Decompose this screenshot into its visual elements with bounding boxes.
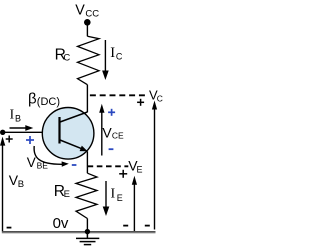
minus sign (black) at VC bottom <box>145 225 150 227</box>
minus sign (blue) below VCE <box>109 148 114 150</box>
minus sign (black) at VE bottom <box>123 225 128 227</box>
minus sign (blue) at emitter <box>72 164 77 166</box>
arrow VB (up) <box>0 137 5 231</box>
svg-text:E: E <box>117 193 123 203</box>
svg-text:B: B <box>18 179 24 190</box>
resistor RC <box>78 36 100 84</box>
node dot base-left <box>0 130 5 135</box>
arrow IB <box>10 125 34 131</box>
wire base <box>3 131 43 133</box>
svg-text:E: E <box>64 189 70 200</box>
plus sign (black) at VE <box>119 170 127 178</box>
node dot on rail <box>85 229 90 234</box>
svg-text:C: C <box>116 52 123 62</box>
svg-text:I: I <box>111 187 116 202</box>
wire RE to ground rail <box>86 219 88 232</box>
svg-text:I: I <box>10 106 15 121</box>
svg-text:B: B <box>15 114 21 124</box>
svg-text:(DC): (DC) <box>37 96 60 108</box>
label IC <box>110 45 123 61</box>
svg-text:CC: CC <box>85 9 99 20</box>
transistor Q1 base bar <box>58 117 60 144</box>
svg-text:CE: CE <box>112 131 124 141</box>
node VCC terminal dot <box>84 19 91 26</box>
label IB <box>10 106 21 123</box>
minus sign (black) at VB bottom <box>7 227 12 229</box>
dashed line emitter node to VE <box>88 165 129 167</box>
wire VCC to RC <box>86 23 88 36</box>
ground symbol <box>76 233 99 245</box>
label beta(DC) <box>28 90 60 108</box>
curved arrow VBE <box>34 146 69 167</box>
arrow VC (up) <box>152 101 157 230</box>
wire emitter to RE <box>86 151 88 173</box>
svg-text:V: V <box>102 124 112 140</box>
arrow IE <box>103 181 110 216</box>
transistor Q1 collector lead <box>60 112 87 122</box>
label VBE <box>27 155 48 171</box>
svg-text:0v: 0v <box>53 215 69 232</box>
label VCC <box>75 2 99 19</box>
svg-text:C: C <box>63 52 70 63</box>
label RE <box>54 183 70 200</box>
svg-text:C: C <box>157 93 163 103</box>
arrow IC <box>102 40 109 80</box>
label IE <box>111 187 123 203</box>
plus sign (blue) at base <box>26 136 34 144</box>
plus sign (blue) at VCE <box>108 109 115 116</box>
svg-text:E: E <box>137 164 143 174</box>
svg-text:β: β <box>28 90 37 107</box>
svg-text:V: V <box>27 155 36 170</box>
label VC <box>149 87 163 103</box>
arrow VE (up) <box>132 176 137 231</box>
svg-text:V: V <box>75 2 85 18</box>
arrow VCE (up) <box>99 104 104 156</box>
transistor Q1 body <box>42 108 94 160</box>
wire RC to collector node <box>86 85 88 113</box>
svg-text:I: I <box>110 45 115 61</box>
resistor RE <box>76 173 97 218</box>
label VE <box>128 157 142 174</box>
label VCE <box>102 124 124 140</box>
label RC <box>55 46 71 63</box>
transistor Q1 emitter lead with arrowhead <box>60 140 88 151</box>
plus sign (black) at VB top <box>6 136 13 143</box>
label VB <box>9 172 24 190</box>
dashed line collector node to VC <box>90 94 145 96</box>
plus sign (black) at VC <box>137 99 144 106</box>
